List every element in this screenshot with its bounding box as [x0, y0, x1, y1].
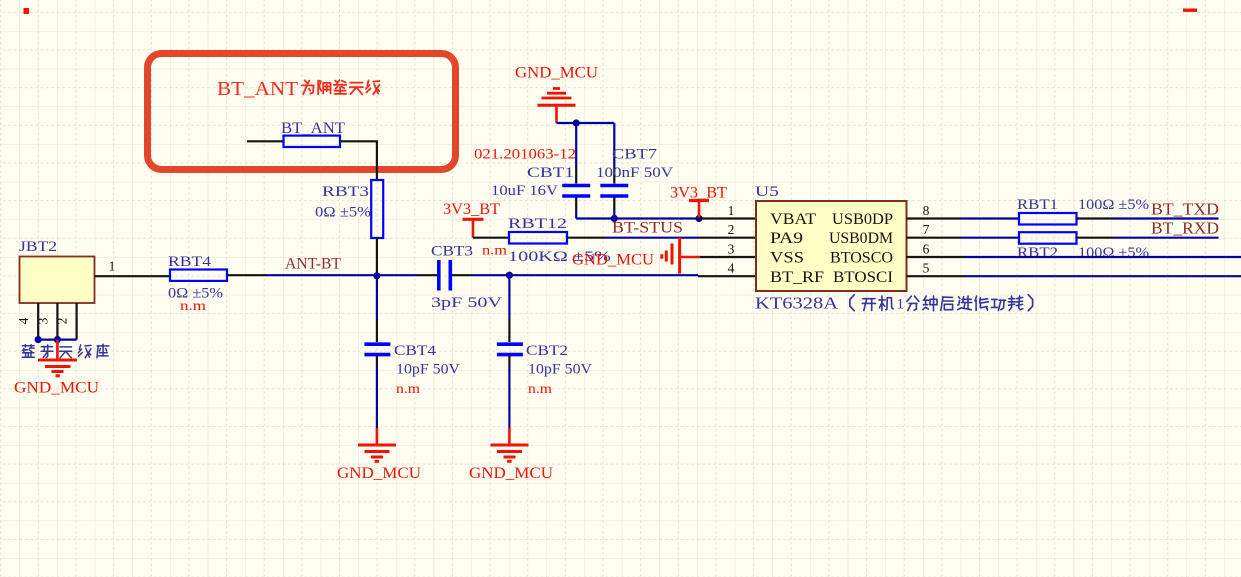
capacitor CBT1 — [491, 165, 590, 199]
capacitor CBT2 — [497, 343, 592, 396]
svg-text:GND_MCU: GND_MCU — [337, 465, 421, 482]
net label ANT-BT — [285, 256, 342, 273]
pin 4 of JBT2 — [16, 303, 38, 340]
svg-text:BT_RF: BT_RF — [770, 269, 824, 286]
power port 3V3_BT right — [670, 185, 728, 219]
pin number 6 — [923, 241, 930, 256]
wire — [613, 123, 615, 184]
wire pin6 lead — [907, 256, 965, 258]
svg-text:BT_ANT: BT_ANT — [281, 120, 346, 137]
svg-text:3: 3 — [728, 241, 735, 256]
svg-text:RBT2: RBT2 — [1017, 245, 1058, 261]
pin name USB0DP — [832, 211, 893, 228]
wire — [376, 276, 378, 342]
svg-text:021.201063-12: 021.201063-12 — [474, 147, 576, 163]
svg-text:2: 2 — [728, 222, 735, 237]
wire — [473, 237, 509, 239]
pin name USB0DM — [829, 230, 893, 247]
pin name BTOSCO — [830, 249, 893, 266]
pin name PA9 — [770, 230, 803, 247]
svg-text:1: 1 — [109, 259, 116, 274]
sheet border tick right — [1183, 9, 1197, 12]
svg-text:n.m: n.m — [482, 243, 508, 258]
net label BT_TXD — [1151, 200, 1219, 219]
svg-text:RBT1: RBT1 — [1017, 197, 1058, 213]
svg-text:PA9: PA9 — [770, 230, 803, 247]
pin number 3 — [728, 241, 735, 256]
junction — [573, 119, 580, 126]
junction — [373, 272, 380, 279]
svg-text:BT_RXD: BT_RXD — [1151, 219, 1219, 238]
svg-text:USB0DP: USB0DP — [832, 211, 893, 228]
wire pin1 lead — [698, 217, 756, 219]
svg-text:n.m: n.m — [528, 381, 553, 396]
pin 2 of JBT2 — [55, 303, 77, 340]
svg-text:3V3_BT: 3V3_BT — [443, 201, 501, 218]
svg-text:3pF 50V: 3pF 50V — [431, 295, 502, 311]
svg-text:U5: U5 — [755, 184, 779, 200]
wire — [247, 140, 284, 142]
net label GND_MCU — [14, 380, 99, 397]
svg-text:7: 7 — [923, 222, 930, 237]
svg-text:4: 4 — [16, 317, 31, 324]
svg-text:n.m: n.m — [396, 381, 421, 396]
wire — [557, 122, 615, 124]
svg-text:2: 2 — [55, 318, 70, 325]
svg-text:10pF 50V: 10pF 50V — [528, 362, 592, 378]
wire BT_TXD — [1113, 217, 1219, 219]
svg-text:100Ω ±5%: 100Ω ±5% — [1078, 197, 1149, 213]
wire — [1077, 237, 1114, 239]
wire pin5 lead — [907, 275, 965, 277]
svg-text:ANT-BT: ANT-BT — [285, 256, 342, 273]
svg-text:BTOSCI: BTOSCI — [833, 269, 893, 286]
svg-text:n.m: n.m — [180, 298, 207, 313]
junction — [611, 215, 618, 222]
part comment KT6328A — [755, 294, 1033, 313]
svg-text:RBT4: RBT4 — [168, 254, 212, 270]
svg-text:KT6328A: KT6328A — [755, 294, 838, 313]
net label GND_MCU top — [515, 65, 598, 82]
svg-text:1: 1 — [897, 297, 905, 313]
pin number 8 — [923, 203, 930, 218]
wire pin3 lead — [700, 256, 756, 258]
wire — [613, 198, 615, 219]
resistor RBT4 — [168, 254, 227, 313]
pin number 7 — [923, 222, 930, 237]
svg-text:BT_TXD: BT_TXD — [1151, 200, 1219, 219]
pin 3 of JBT2 — [36, 303, 58, 340]
label 蓝牙天线座 — [22, 344, 109, 358]
svg-text:GND_MCU: GND_MCU — [515, 65, 598, 82]
wire BTOSCI net — [965, 275, 1241, 277]
ground GND_MCU at CBT4 — [358, 428, 396, 461]
net label BT-STUS — [612, 220, 683, 237]
pin 1 of JBT2 — [95, 259, 171, 277]
svg-text:RBT3: RBT3 — [322, 184, 369, 200]
pin name VSS — [770, 249, 804, 266]
svg-text:8: 8 — [923, 203, 930, 218]
resistor RBT12 — [508, 216, 611, 265]
label 021.201063-12 — [474, 147, 576, 163]
pin name VBAT — [770, 211, 817, 228]
junction — [35, 336, 42, 343]
wire BT_RXD — [1113, 237, 1219, 239]
wire — [376, 238, 378, 276]
wire — [575, 198, 577, 219]
comment text BT_ANT为陶瓷天线 — [217, 78, 380, 100]
svg-text:CBT7: CBT7 — [612, 147, 658, 163]
resistor BT_ANT — [281, 120, 346, 147]
wire — [567, 237, 698, 239]
junction — [506, 272, 513, 279]
resistor RBT2 — [1017, 232, 1149, 261]
wire — [227, 274, 267, 276]
junction — [54, 336, 61, 343]
capacitor CBT3 — [417, 243, 508, 312]
pin name BTOSCI — [833, 269, 893, 286]
svg-text:GND_MCU: GND_MCU — [14, 380, 99, 397]
wire VBAT net — [576, 217, 698, 219]
svg-text:0Ω ±5%: 0Ω ±5% — [315, 205, 371, 221]
svg-text:3V3_BT: 3V3_BT — [670, 185, 728, 202]
pin number 1 — [728, 203, 735, 218]
svg-text:4: 4 — [728, 261, 735, 276]
svg-text:100nF 50V: 100nF 50V — [596, 165, 673, 181]
junction — [695, 215, 702, 222]
pin name BT_RF — [770, 269, 824, 286]
svg-text:VSS: VSS — [770, 249, 804, 266]
svg-text:CBT2: CBT2 — [526, 343, 568, 359]
wire pin7 lead — [907, 237, 962, 239]
wire ANT-BT — [266, 274, 417, 276]
svg-text:6: 6 — [923, 241, 930, 256]
wire — [575, 123, 577, 184]
svg-text:1: 1 — [728, 203, 735, 218]
net label GND_MCU — [337, 465, 421, 482]
svg-text:5: 5 — [923, 261, 930, 276]
comment frame (red rounded rectangle) — [148, 54, 456, 170]
wire — [340, 141, 378, 180]
wire pin2 lead — [698, 237, 756, 239]
svg-text:BTOSCO: BTOSCO — [830, 249, 893, 266]
svg-text:100Ω ±5%: 100Ω ±5% — [1078, 245, 1149, 261]
connector JBT2 — [19, 239, 95, 303]
svg-text:10pF 50V: 10pF 50V — [396, 362, 460, 378]
svg-text:BT-STUS: BT-STUS — [612, 220, 683, 237]
svg-text:3: 3 — [36, 317, 51, 324]
wire — [1077, 217, 1114, 219]
wire pin4 lead — [698, 275, 756, 277]
wire — [961, 237, 1019, 239]
capacitor CBT7 — [596, 147, 673, 197]
svg-text:BT_ANT: BT_ANT — [217, 78, 298, 100]
svg-text:10uF 16V: 10uF 16V — [491, 183, 558, 199]
svg-text:CBT3: CBT3 — [431, 244, 473, 260]
svg-text:RBT12: RBT12 — [508, 216, 567, 232]
IC U5 KT6328A — [755, 184, 907, 291]
svg-text:GND_MCU: GND_MCU — [572, 252, 654, 269]
wire BTOSCO net — [965, 256, 1241, 258]
svg-text:VBAT: VBAT — [770, 211, 817, 228]
net label BT_RXD — [1151, 219, 1219, 238]
svg-text:USB0DM: USB0DM — [829, 230, 893, 247]
svg-text:GND_MCU: GND_MCU — [469, 465, 553, 482]
net label GND_MCU middle — [572, 252, 654, 269]
capacitor CBT4 — [364, 343, 460, 396]
wire — [472, 274, 698, 276]
ground GND_MCU top (flipped) — [538, 89, 576, 124]
ground GND_MCU at JBT2 — [38, 340, 77, 376]
sheet border tick left — [24, 8, 30, 14]
wire — [38, 339, 76, 341]
wire — [508, 275, 510, 342]
wire pin8 lead — [907, 217, 962, 219]
resistor RBT1 — [1017, 197, 1149, 225]
wire — [376, 356, 378, 428]
net label GND_MCU — [469, 465, 553, 482]
ground GND_MCU at CBT2 — [491, 428, 529, 461]
resistor RBT3 — [315, 180, 383, 238]
wire — [961, 217, 1019, 219]
pin number 5 — [923, 261, 930, 276]
svg-text:JBT2: JBT2 — [19, 239, 57, 255]
svg-text:CBT4: CBT4 — [394, 343, 437, 359]
ground GND_MCU rotated at VSS — [662, 238, 700, 274]
pin number 4 — [728, 261, 735, 276]
pin number 2 — [728, 222, 735, 237]
svg-text:CBT1: CBT1 — [527, 165, 574, 181]
wire — [508, 356, 510, 428]
power port 3V3_BT left — [443, 201, 501, 238]
